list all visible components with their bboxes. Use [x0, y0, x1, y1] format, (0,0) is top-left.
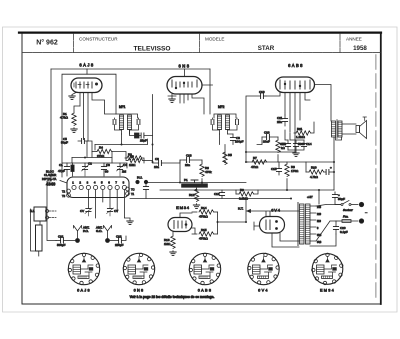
resistor R5 [223, 152, 232, 165]
svg-text:CV: CV [80, 209, 84, 213]
wire V3 anode to OT [315, 85, 332, 122]
wire left edge drop [31, 209, 36, 251]
svg-text:0.1µF: 0.1µF [340, 230, 348, 234]
svg-text:C15: C15 [271, 167, 277, 171]
svg-text:4: 4 [94, 181, 96, 185]
resistor R16 [164, 232, 175, 253]
svg-text:6AJ8: 6AJ8 [79, 63, 94, 68]
capacitor C3 [101, 163, 110, 176]
svg-text:H.T.: H.T. [238, 207, 244, 211]
terminal ant GO [106, 239, 110, 243]
svg-text:R11: R11 [297, 127, 303, 131]
trimmer CV2 [107, 208, 119, 216]
output transformer OT [332, 120, 343, 139]
svg-text:4.7kΩ: 4.7kΩ [60, 116, 69, 120]
svg-text:EM34: EM34 [320, 289, 335, 293]
svg-text:6V4: 6V4 [271, 208, 281, 213]
wire V2 grid [152, 95, 154, 163]
svg-text:C14: C14 [306, 142, 312, 146]
svg-text:R10: R10 [311, 166, 317, 170]
resistor R13 [276, 137, 287, 162]
capacitor C22 ant [110, 235, 127, 247]
svg-text:Voir à la page 28 les détails: Voir à la page 28 les détails techniques… [130, 295, 215, 299]
svg-text:5: 5 [101, 181, 103, 185]
svg-text:245: 245 [317, 206, 322, 209]
svg-text:+HT: +HT [307, 195, 313, 199]
wire screen rail [246, 161, 334, 163]
svg-text:27kΩ: 27kΩ [97, 154, 105, 158]
wire left tall loop [50, 69, 52, 181]
svg-text:C21: C21 [58, 235, 64, 239]
svg-text:R4: R4 [99, 146, 103, 150]
svg-text:STAR: STAR [258, 45, 275, 52]
svg-text:220: 220 [317, 213, 322, 216]
resistor R9 [236, 188, 258, 201]
svg-text:250pF: 250pF [115, 243, 124, 247]
terminal ant PO [76, 239, 80, 243]
wire HT lead [238, 207, 260, 230]
svg-text:170Ω: 170Ω [291, 169, 299, 173]
potentiometer volume [182, 178, 207, 187]
svg-text:10n: 10n [154, 165, 159, 169]
capacitor C1 47pF [58, 163, 70, 176]
svg-text:P1: P1 [184, 178, 188, 182]
wire junctions [62, 144, 335, 224]
svg-text:R7: R7 [253, 156, 257, 160]
fuse [336, 215, 358, 223]
PU terminals [136, 176, 149, 199]
terminal mains 2 [359, 219, 363, 223]
svg-text:E.L: E.L [30, 209, 35, 213]
capacitor C15 [271, 162, 282, 175]
svg-text:1MΩ: 1MΩ [129, 163, 136, 167]
mains transformer TR [298, 203, 310, 246]
svg-text:Fus.: Fus. [343, 215, 349, 219]
svg-text:Secteur: Secteur [343, 208, 354, 212]
wire EM34 net [180, 199, 246, 235]
svg-text:T3: T3 [62, 194, 66, 198]
capacitor C19 [214, 190, 225, 199]
svg-text:C3: C3 [106, 163, 110, 167]
svg-text:6V3: 6V3 [317, 241, 322, 244]
svg-text:470k: 470k [205, 170, 212, 174]
svg-text:TC: TC [131, 188, 135, 192]
loudspeaker [342, 117, 367, 139]
svg-text:T1: T1 [131, 192, 135, 196]
capacitor C2 trimmer [82, 162, 93, 176]
svg-text:6AB8: 6AB8 [288, 63, 304, 68]
ground block [127, 221, 133, 224]
ground R1 [71, 129, 77, 132]
svg-text:6AB8: 6AB8 [198, 289, 213, 293]
wire cathode rail [72, 141, 112, 158]
label AC sign [365, 210, 368, 215]
socket 6N8 [123, 253, 155, 292]
label bloc clavier [42, 170, 67, 187]
svg-text:3: 3 [87, 181, 89, 185]
wire misc mid [225, 145, 295, 163]
svg-text:MODELE: MODELE [205, 36, 224, 41]
svg-text:2M: 2M [122, 170, 127, 174]
tube V3 6AB8 [276, 63, 315, 93]
svg-text:470kΩ: 470kΩ [199, 215, 209, 219]
wire V1 loop [62, 74, 116, 177]
resistor R8 cathode [285, 162, 299, 190]
svg-text:6N8: 6N8 [134, 289, 145, 293]
wire B+ vertical [319, 137, 342, 204]
caption [130, 295, 215, 299]
wire block drops [88, 190, 130, 221]
socket 6AB8 [189, 253, 221, 292]
resistor R6b [112, 152, 153, 168]
svg-text:25pF: 25pF [140, 139, 147, 143]
ground R16 [170, 252, 176, 255]
resistor R12 pot return [189, 188, 199, 205]
svg-text:2: 2 [79, 181, 81, 185]
ground V3 cluster [293, 153, 299, 156]
svg-text:47pF: 47pF [58, 169, 65, 173]
svg-text:C1: C1 [59, 163, 63, 167]
capacitor C20 [333, 221, 347, 234]
capacitor C8 detector [220, 134, 244, 145]
trimmer CV1 [80, 208, 92, 216]
capacitor C21 ant [56, 235, 76, 247]
wire detector rails [130, 160, 334, 199]
wire V1 pins down [80, 93, 116, 142]
svg-text:MF1: MF1 [119, 105, 126, 109]
svg-text:R6: R6 [130, 155, 134, 159]
wire C20 return [310, 234, 336, 246]
resistor R1 4.7k [60, 106, 80, 129]
svg-text:6AJ8: 6AJ8 [77, 289, 91, 293]
wire V2 anode [202, 69, 213, 114]
socket 6V4 [248, 253, 280, 292]
socket 6AJ8 [68, 253, 100, 292]
svg-text:110: 110 [317, 220, 321, 223]
svg-text:R5: R5 [228, 153, 232, 157]
svg-text:8: 8 [123, 181, 125, 185]
svg-text:6N8: 6N8 [179, 64, 191, 69]
svg-text:CV: CV [114, 209, 118, 213]
tube V2 6N8 [167, 64, 202, 95]
svg-text:500pF: 500pF [57, 243, 66, 247]
svg-text:CONSTRUCTEUR: CONSTRUCTEUR [79, 36, 118, 41]
svg-text:T2: T2 [62, 190, 66, 194]
capacitor C6 [135, 133, 153, 143]
svg-text:1.2MΩ: 1.2MΩ [296, 135, 306, 139]
antenna PO [74, 226, 90, 240]
svg-text:470kΩ: 470kΩ [199, 237, 209, 241]
svg-text:R9: R9 [240, 188, 244, 192]
resistor R11 [290, 122, 314, 140]
IF transformer MF2 [211, 105, 238, 134]
wire V3 pins [266, 93, 310, 153]
svg-text:6: 6 [108, 181, 110, 185]
svg-text:100pF: 100pF [235, 140, 244, 144]
svg-text:R12: R12 [189, 193, 195, 197]
capacitor C9 coupling [153, 157, 181, 169]
capacitor C23 detector [257, 131, 278, 145]
svg-text:22n: 22n [185, 163, 190, 167]
capacitor C10 [246, 90, 266, 152]
capacitor C13 [290, 140, 305, 150]
terminal mains 1 [359, 202, 363, 206]
resistor R4 27k [92, 146, 112, 158]
capacitor C14 [288, 140, 312, 153]
ground pot [193, 205, 199, 208]
svg-text:N° 962: N° 962 [36, 39, 58, 47]
svg-text:1958: 1958 [353, 45, 367, 52]
ground V1 cathode [69, 93, 76, 100]
svg-text:C22: C22 [116, 235, 122, 239]
svg-text:G.O.: G.O. [96, 229, 103, 233]
socket EM34 [312, 253, 343, 292]
tube V1 6AJ8 [71, 63, 102, 93]
svg-text:C10: C10 [259, 90, 265, 94]
svg-text:3.3MΩ: 3.3MΩ [239, 197, 249, 201]
svg-text:ANNEE: ANNEE [346, 36, 362, 41]
frame top heavy line [19, 31, 381, 33]
svg-text:P.O.: P.O. [83, 229, 89, 233]
svg-text:50µF: 50µF [61, 141, 68, 145]
capacitor C11 grid [277, 115, 288, 126]
svg-text:TELEVISSO: TELEVISSO [133, 46, 170, 53]
connector dial lamps [34, 207, 56, 225]
tube V5 6V4 rectifier [260, 208, 285, 234]
svg-text:C19: C19 [214, 192, 220, 196]
wire top rail [51, 68, 210, 70]
svg-text:50µF: 50µF [338, 197, 345, 201]
header box [23, 34, 380, 53]
capacitor C17 50uF [332, 192, 345, 205]
svg-text:25n: 25n [277, 120, 282, 124]
svg-text:6V4: 6V4 [258, 289, 269, 293]
svg-text:~: ~ [365, 210, 368, 215]
resistor R3 [125, 153, 144, 163]
svg-text:R15: R15 [201, 228, 207, 232]
capacitor C12 [280, 130, 291, 150]
switch secteur [335, 192, 358, 212]
svg-text:1: 1 [72, 181, 74, 185]
IF transformer MF1 [113, 105, 140, 134]
wire grid line [72, 145, 112, 164]
resistor R7 [246, 156, 267, 169]
svg-text:C4: C4 [123, 163, 127, 167]
svg-text:7: 7 [115, 181, 117, 185]
svg-text:kΩ: kΩ [281, 146, 286, 150]
svg-text:C18: C18 [186, 154, 192, 158]
svg-text:R14: R14 [201, 206, 207, 210]
svg-text:C9: C9 [155, 157, 159, 161]
wire TR taps [310, 206, 322, 244]
wire HT label [307, 195, 313, 199]
svg-text:4340: 4340 [46, 181, 56, 186]
capacitor C5 50uF [61, 137, 88, 145]
tube V4 EM34 magic eye [168, 205, 192, 232]
wire V2 pins [168, 94, 204, 114]
resistor R6 [200, 162, 212, 183]
wire 6V4 plates [247, 211, 299, 247]
capacitor C4 [117, 163, 128, 176]
tuner block 4340 [62, 177, 135, 198]
trimmer CT1 [71, 163, 74, 176]
wire mains [316, 205, 341, 242]
wire MF1 to V2 grid [122, 130, 135, 145]
svg-text:MF2: MF2 [218, 105, 225, 109]
ground V2 [169, 99, 175, 102]
svg-text:10nF: 10nF [263, 140, 270, 144]
svg-text:DIPTAL-TA: DIPTAL-TA [42, 177, 56, 181]
resistor R14 [192, 206, 218, 219]
frame aerial [30, 209, 42, 256]
svg-text:EM34: EM34 [176, 205, 190, 210]
resistor R15 [192, 228, 218, 241]
antenna GO [96, 226, 112, 240]
svg-text:C23: C23 [264, 131, 270, 135]
svg-text:P.U.: P.U. [137, 176, 143, 180]
resistor R10 [306, 162, 326, 179]
svg-text:90: 90 [105, 170, 109, 174]
wire AVC rail [95, 139, 148, 145]
svg-text:47kΩ: 47kΩ [251, 165, 259, 169]
wire cap row [62, 163, 127, 168]
wire antenna rail [47, 181, 56, 241]
capacitor C18 22n [180, 154, 202, 167]
capacitor C16 [326, 166, 334, 175]
svg-text:+: + [330, 166, 332, 170]
svg-text:C2: C2 [88, 162, 92, 166]
svg-text:0: 0 [317, 227, 319, 230]
svg-text:4.7kΩ: 4.7kΩ [310, 175, 319, 179]
svg-text:1MΩ: 1MΩ [164, 242, 171, 246]
